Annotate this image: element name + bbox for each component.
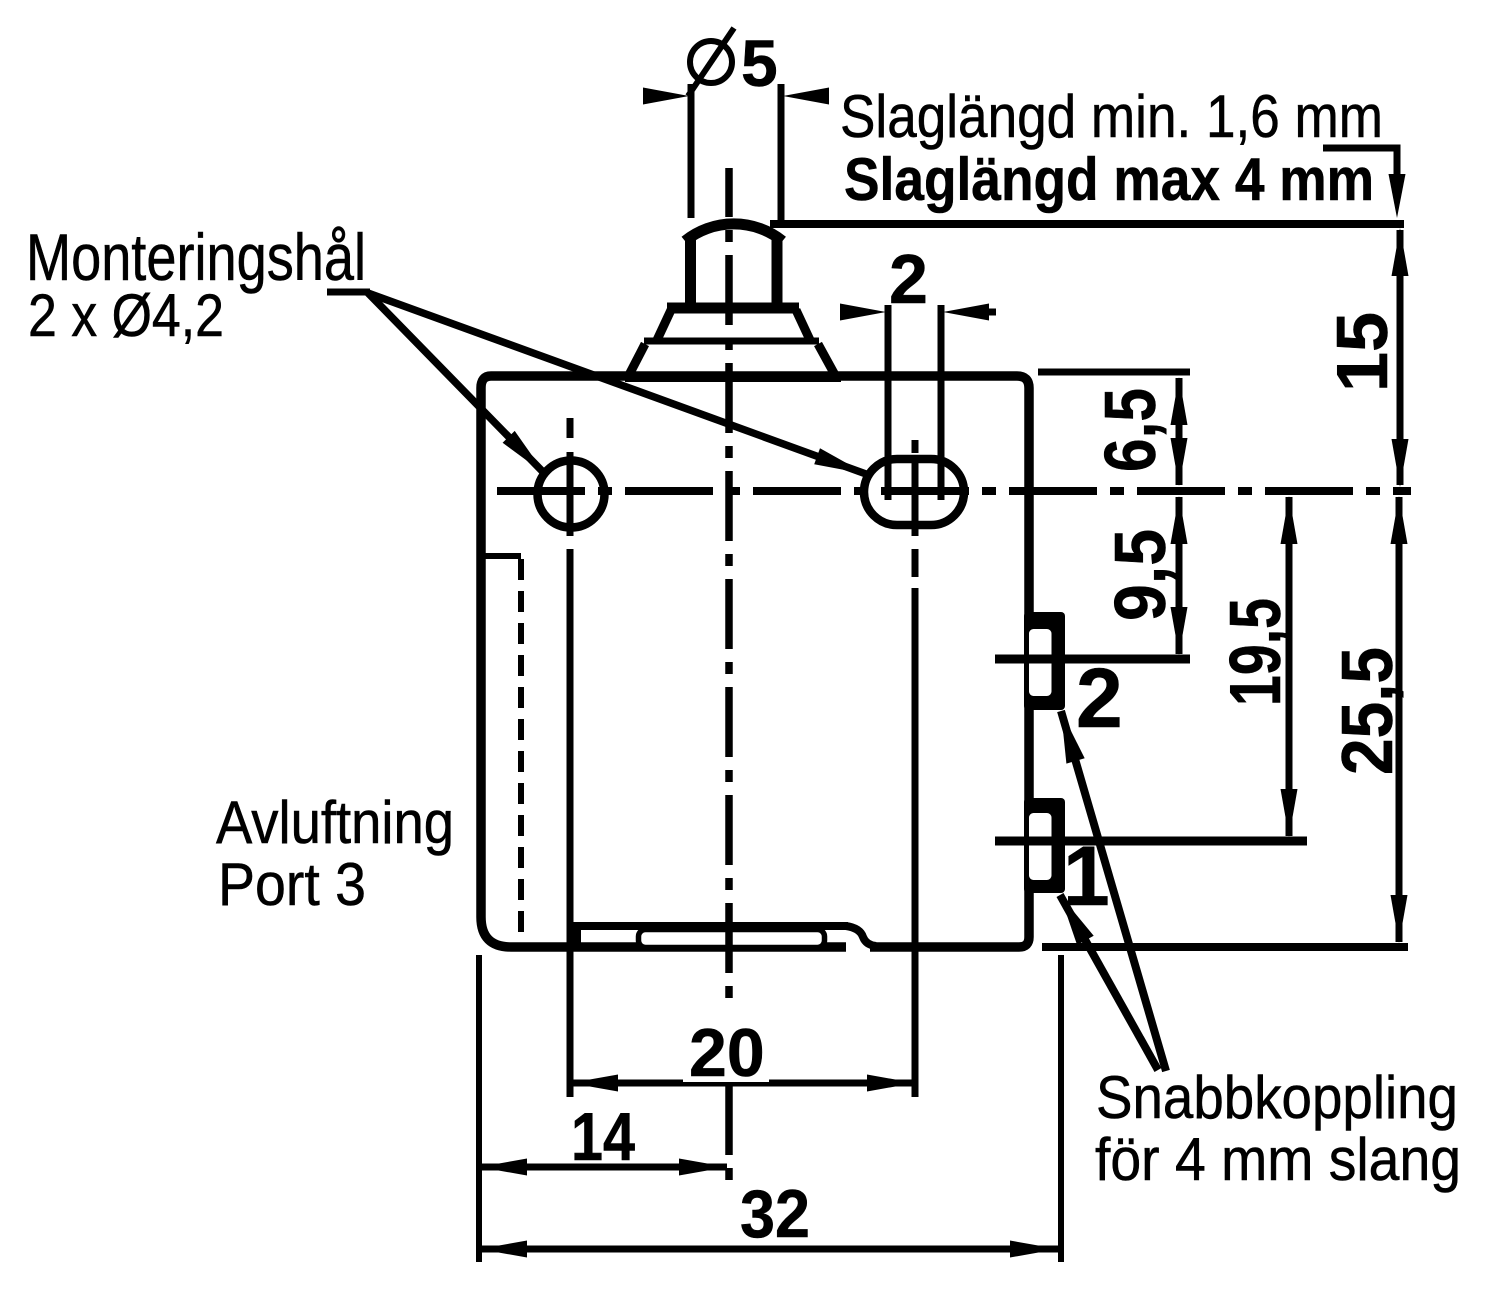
dim20 line — [570, 1080, 915, 1087]
right hole centerline dash — [912, 440, 919, 453]
dim195 arrow up — [1281, 496, 1298, 544]
plunger left side — [685, 239, 696, 308]
dim32 arrow right — [1010, 1241, 1058, 1258]
dim14 arrow right — [679, 1159, 727, 1176]
port2 center ext line — [995, 655, 1190, 664]
left ext line — [476, 955, 482, 1262]
svg-text:19,5: 19,5 — [1216, 598, 1296, 706]
dim32 arrow left — [479, 1241, 527, 1258]
dim255 line — [1396, 497, 1403, 942]
svg-text:1: 1 — [1063, 829, 1110, 923]
dim65 arrow up — [1171, 377, 1188, 425]
dim2 ext line right — [938, 305, 945, 500]
svg-text:2: 2 — [889, 240, 928, 318]
stroke min bracket — [1323, 148, 1406, 218]
mounting hole left — [538, 461, 605, 528]
dim65 ext line — [1038, 369, 1190, 376]
dim20 text bg — [683, 1022, 769, 1082]
svg-text:2 x Ø4,2: 2 x Ø4,2 — [28, 282, 224, 349]
dim95 line — [1176, 497, 1183, 654]
right ext line — [1058, 955, 1064, 1262]
bottom groove left step — [573, 922, 581, 947]
boot left slant 2 — [629, 344, 645, 375]
dim5 ext line right — [778, 84, 785, 222]
mounting hole right slot — [864, 459, 964, 525]
dim195 line — [1286, 497, 1293, 836]
monteringshal arrow to right slot — [368, 293, 866, 474]
plunger right side — [772, 239, 783, 308]
port 2 tab — [1024, 612, 1065, 710]
dim14 text — [571, 1099, 635, 1175]
svg-text:Port 3: Port 3 — [218, 851, 366, 918]
svg-text:Slaglängd max 4 mm: Slaglängd max 4 mm — [844, 146, 1374, 213]
boot ridge band 2 — [644, 338, 819, 345]
dim15 arrow up — [1392, 228, 1409, 276]
svg-text:2: 2 — [1076, 651, 1123, 745]
dim195 text — [1216, 598, 1296, 706]
boot left slant 1 — [657, 310, 671, 340]
svg-text:6,5: 6,5 — [1091, 388, 1171, 472]
bottom edge notch gap — [846, 941, 870, 953]
svg-text:14: 14 — [571, 1099, 635, 1175]
left hole centerline dash — [567, 418, 574, 438]
bottom groove ceiling — [573, 922, 848, 930]
dim5 ext line left — [688, 84, 695, 218]
text avluftning — [216, 789, 454, 856]
svg-text:för 4 mm slang: för 4 mm slang — [1095, 1126, 1461, 1193]
bottom insert plate — [639, 930, 825, 948]
horizontal centerline — [489, 487, 1411, 495]
text snabbkoppling — [1096, 1064, 1458, 1131]
dim15 arrow down — [1392, 439, 1409, 487]
dim255 text — [1328, 647, 1408, 775]
dim65 line — [1176, 378, 1183, 485]
vertical centerline upper — [725, 168, 733, 1004]
boot collar band — [667, 303, 799, 314]
port 2 nipple opening — [1027, 627, 1055, 699]
port 1 nipple opening — [1027, 811, 1055, 883]
right hole centerline dash 2 — [912, 549, 919, 577]
boot base band — [625, 372, 841, 382]
text 2x042 — [28, 282, 224, 349]
bottom ext line — [1042, 943, 1408, 951]
dim20 arrow right — [867, 1075, 915, 1092]
dim20 text — [689, 1015, 765, 1091]
svg-text:9,5: 9,5 — [1101, 529, 1181, 621]
dim2 arrow left — [840, 304, 886, 321]
dim5 label slash — [688, 28, 734, 96]
monteringshal leader tick — [327, 289, 370, 296]
svg-text:Slaglängd min. 1,6 mm: Slaglängd min. 1,6 mm — [840, 83, 1383, 150]
dim5 label text — [741, 26, 778, 100]
port 1 label — [1063, 829, 1110, 923]
right hole centerline — [912, 459, 919, 536]
left hole centerline — [567, 452, 574, 536]
svg-text:Avluftning: Avluftning — [216, 789, 454, 856]
dim14 line — [479, 1164, 727, 1171]
boot right slant 2 — [818, 344, 835, 375]
dim14 arrow left — [479, 1159, 527, 1176]
dim95 arrow up — [1171, 496, 1188, 544]
port1 center ext line — [995, 837, 1307, 846]
dim255 arrow down — [1391, 895, 1408, 943]
svg-text:32: 32 — [740, 1176, 810, 1252]
boot right slant 1 — [796, 310, 810, 340]
dim195 arrow down — [1281, 789, 1298, 837]
dim32 line — [479, 1246, 1058, 1253]
stroke max line — [770, 220, 1404, 228]
monteringshal arrow to left hole — [368, 293, 545, 474]
dim5 label circle — [690, 41, 732, 83]
dim2 arrow right — [943, 304, 996, 321]
svg-text:15: 15 — [1323, 312, 1403, 392]
dim20 arrow left — [570, 1075, 618, 1092]
dim15 line — [1397, 230, 1404, 485]
dim32 text — [740, 1176, 810, 1252]
svg-text:20: 20 — [689, 1015, 765, 1091]
snabbkoppling arrow to port 1 — [1060, 895, 1158, 1070]
text slaglangd max — [844, 146, 1374, 213]
dim5 arrow left — [643, 88, 689, 105]
dim95 text — [1101, 529, 1181, 621]
port 1 tab — [1024, 798, 1065, 893]
right hole extension line — [912, 588, 919, 1097]
hidden edge dashed line — [518, 559, 524, 938]
plunger dome — [685, 224, 783, 241]
left hole extension line — [567, 549, 574, 1097]
text for 4mm slang — [1095, 1126, 1461, 1193]
dim5 arrow right — [783, 88, 829, 105]
switch body outline — [481, 376, 1029, 947]
text monteringshal — [26, 220, 366, 294]
port 2 label — [1076, 651, 1123, 745]
svg-text:Snabbkoppling: Snabbkoppling — [1096, 1064, 1458, 1131]
dim2 ext line left — [885, 305, 892, 500]
dim15 text — [1323, 312, 1403, 392]
bottom groove right step curve — [846, 926, 876, 946]
snabbkoppling arrow to port 2 — [1061, 711, 1166, 1071]
svg-text:25,5: 25,5 — [1328, 647, 1408, 775]
vertical centerline lower — [725, 1085, 733, 1192]
hidden edge tick — [481, 553, 521, 559]
dim95 arrow down — [1171, 607, 1188, 655]
dim65 text — [1091, 388, 1171, 472]
text port 3 — [218, 851, 366, 918]
dim65 arrow down — [1171, 438, 1188, 486]
text slaglangd min — [840, 83, 1383, 150]
dim2 text — [889, 240, 928, 318]
dim255 arrow up — [1391, 496, 1408, 544]
svg-text:5: 5 — [741, 26, 778, 100]
